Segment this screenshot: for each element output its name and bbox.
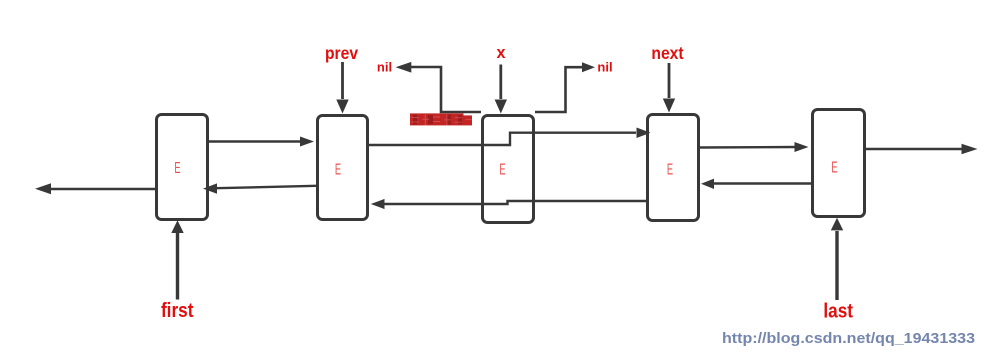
wire: node2.next passing through node3 (enters left, steps up) (369, 144, 482, 146)
svg-text:last: last (823, 299, 853, 322)
arrow: next down into node4 (663, 63, 675, 113)
arrow: x down into node3 (495, 65, 507, 114)
arrow: first up into node1 (171, 220, 183, 299)
wire: node3.next to node4 (535, 128, 651, 139)
node E3 (node x) (483, 116, 534, 223)
svg-text:x: x (497, 43, 507, 62)
wire: node1.next to node2 (209, 137, 314, 147)
label deleted node (chinese caption, drawn as glyph blocks) (410, 113, 472, 125)
svg-text:E: E (499, 160, 505, 178)
svg-text:next: next (651, 43, 684, 63)
svg-text:first: first (161, 299, 193, 322)
wire: x.next to nil (right) (535, 62, 595, 112)
wire: step inside node3 top (bypass to node4) (481, 133, 535, 145)
arrow: prev down into node2 (336, 62, 348, 114)
wire: node2.prev to node1 (203, 183, 316, 193)
node E1 (157, 115, 208, 220)
node E2 (318, 116, 368, 220)
wire: step inside node3 bottom (bypass back to node2) (481, 201, 646, 204)
svg-text:E: E (174, 158, 180, 176)
node E5 (813, 110, 865, 217)
arrow: last up into node5 (831, 218, 843, 300)
wire: tail next arrow out of node5 to far right (866, 144, 978, 154)
node E4 (648, 115, 699, 221)
wire: x.prev to nil (left) (396, 62, 481, 112)
svg-text:E: E (831, 158, 837, 176)
wire: node5.prev to node4 (701, 179, 811, 189)
svg-text:nil: nil (597, 60, 612, 75)
wire: head prev arrow out of node1 to far left (35, 183, 155, 194)
wire: backward arrow into node2 (371, 199, 481, 209)
svg-text:prev: prev (325, 43, 359, 63)
svg-text:E: E (667, 160, 673, 178)
wire: node4.next to node5 (700, 142, 809, 152)
svg-text:nil: nil (377, 60, 392, 75)
svg-text:http://blog.csdn.net/qq_194313: http://blog.csdn.net/qq_19431333 (722, 331, 975, 347)
svg-text:E: E (335, 160, 341, 178)
